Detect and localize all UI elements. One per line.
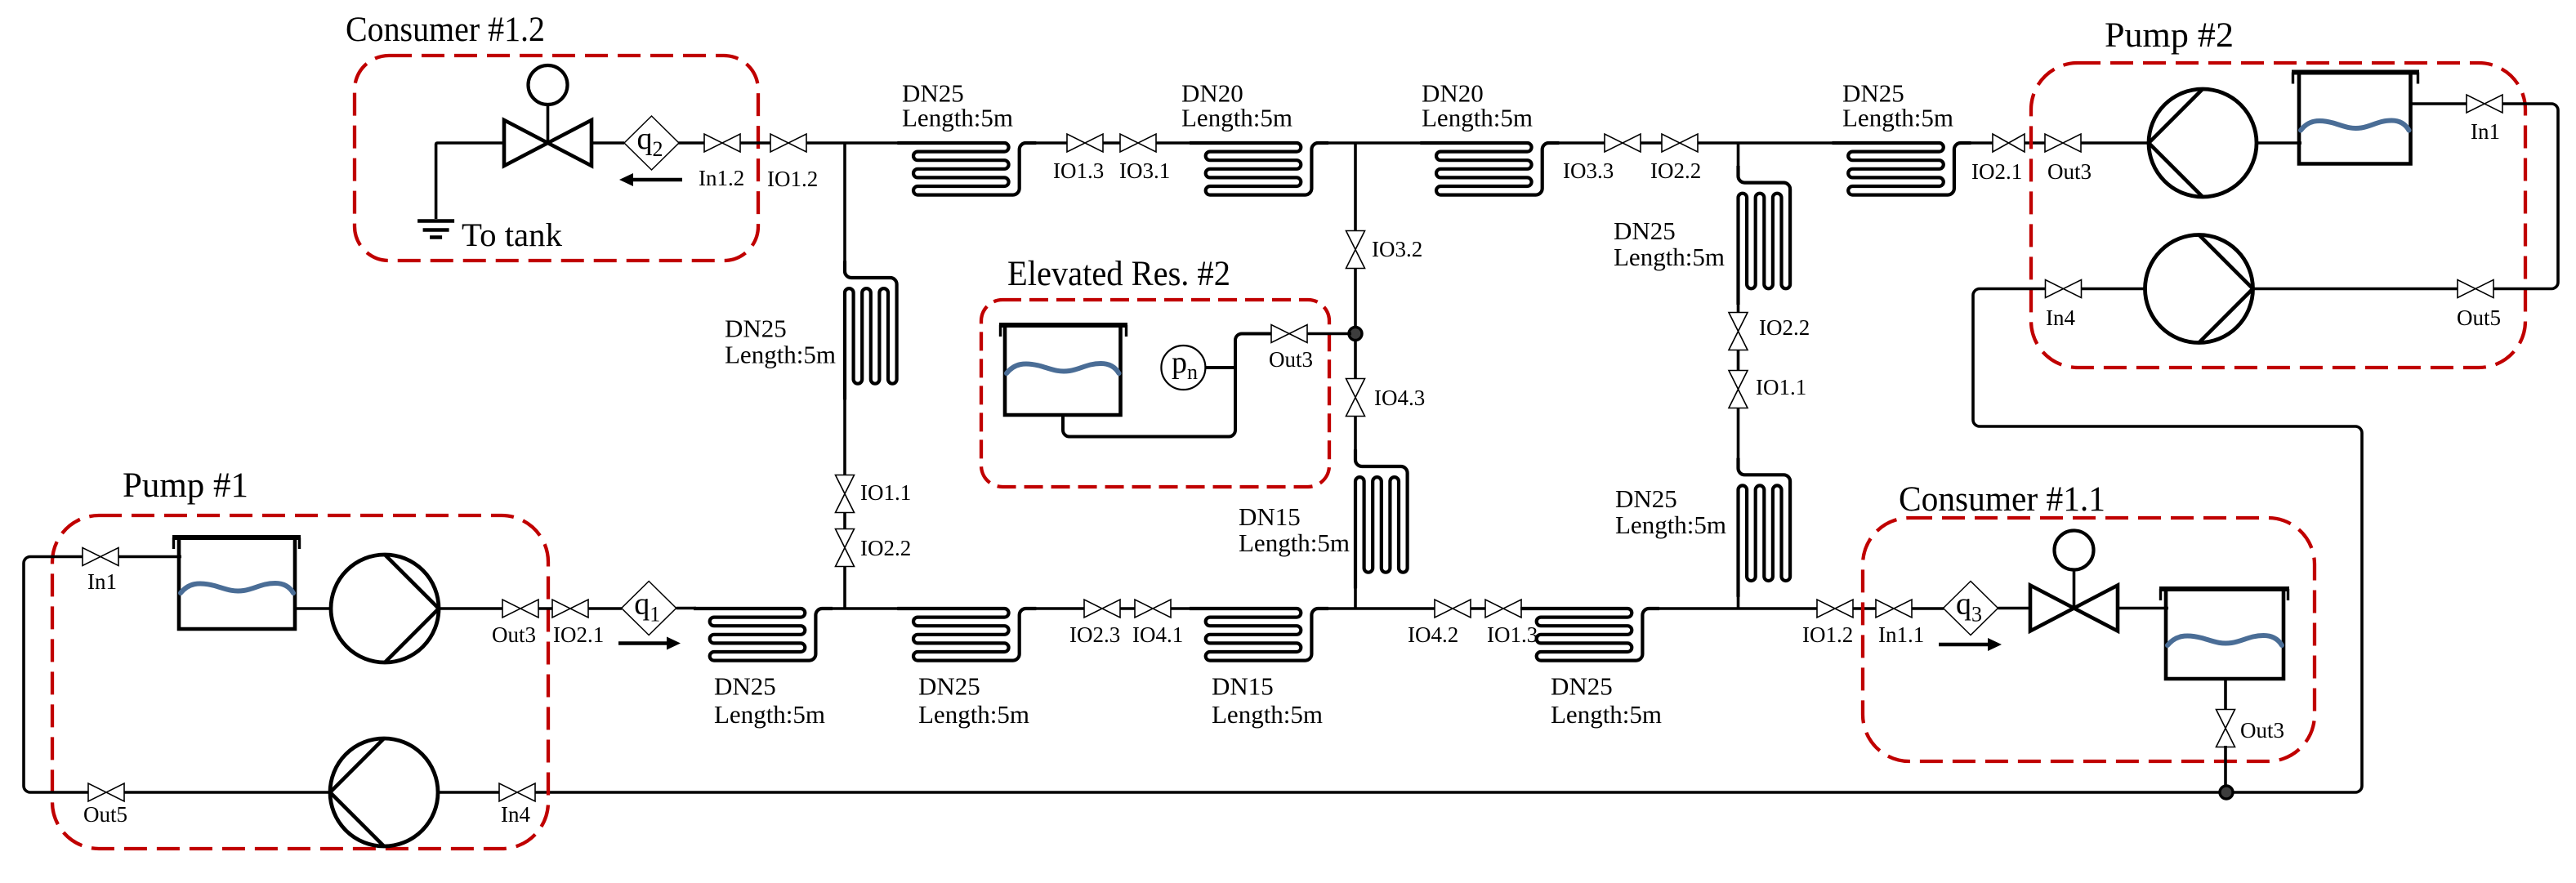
wire Out3 to node (1307, 332, 1351, 336)
svg-text:To tank: To tank (462, 216, 562, 253)
tank drain down (2224, 679, 2227, 711)
valve IO2.2 (left branch) (836, 529, 855, 567)
valve In4 (pump2) (2046, 280, 2082, 298)
svg-text:IO3.1: IO3.1 (1119, 158, 1170, 183)
flow meter q3 (1944, 582, 1998, 635)
svg-text:Length:5m: Length:5m (1212, 700, 1323, 729)
svg-text:In1.1: In1.1 (1878, 622, 1924, 647)
wire coil to valve IO4.2 via node (1327, 607, 1435, 610)
wire q2 to valve In1.2 (679, 141, 705, 145)
valve IO1.3 (top) (1067, 134, 1103, 152)
branch wire top to coil V1 (843, 143, 846, 265)
branch wire IO2.2 to IO1.1 (1737, 350, 1740, 372)
valve IO3.2 (1346, 231, 1365, 269)
svg-text:IO1.1: IO1.1 (860, 480, 911, 505)
wire Out3 to IO2.1 (538, 607, 552, 610)
wire valve to tank (2118, 607, 2168, 610)
wire In1 left down to Out5 (24, 557, 88, 793)
svg-text:IO1.1: IO1.1 (1756, 375, 1806, 399)
branch wire IO3.2 to node (1354, 268, 1357, 328)
pipe coil DN20 top-2 (1190, 143, 1328, 195)
wire valve V1.2 to q2 (592, 141, 624, 145)
wire IO2.1 to Out3 (2025, 141, 2045, 145)
valve IO4.2 (1435, 600, 1471, 618)
reservoir tank pump #1 (172, 537, 301, 629)
ground (to tank) (417, 221, 454, 238)
svg-text:DN25: DN25 (1615, 484, 1677, 513)
tank drain to Out3 valve (1063, 334, 1273, 437)
svg-text:Out3: Out3 (2047, 159, 2092, 184)
svg-text:IO1.2: IO1.2 (1802, 622, 1853, 647)
svg-text:DN15: DN15 (1239, 502, 1301, 531)
branch wire top to coil V2 (1737, 143, 1740, 167)
wire IO4.1 to coil DN15 (1171, 607, 1193, 610)
valve IO2.1 (pump2) (1993, 134, 2025, 152)
wire tank to pump (295, 607, 333, 610)
svg-text:Out3: Out3 (1269, 347, 1313, 372)
svg-text:In1.2: In1.2 (699, 166, 744, 190)
branch wire IO4.3 to coil DN15 (1354, 416, 1357, 456)
valve In1.2 (704, 134, 740, 152)
wire IO1.2 to In1.1 (1853, 607, 1876, 610)
svg-text:DN15: DN15 (1212, 672, 1274, 701)
junction node Elevated Res (1349, 328, 1362, 341)
branch wire coil to bottom line (1354, 584, 1357, 609)
valve In1.1 (1876, 600, 1912, 618)
wire In1.2 to IO1.2 (740, 141, 770, 145)
wire IO3.1 to coil DN20 (1156, 141, 1213, 145)
wire IO2.2 to coil DN25 via node (1698, 141, 1855, 145)
wire pump to In4 (2082, 288, 2145, 291)
svg-text:IO3.3: IO3.3 (1563, 158, 1614, 183)
valve Out3 (elevated) (1271, 325, 1307, 343)
wire Out5 to pump (124, 791, 332, 794)
valve IO3.3 (1605, 134, 1641, 152)
wire IO2.3 to IO4.1 (1120, 607, 1135, 610)
valve IO2.3 (1084, 600, 1120, 618)
dashed boundary Pump #2 (2031, 63, 2525, 368)
valve IO2.2 (top) (1662, 134, 1698, 152)
pipe coil DN25 bottom-4 (1520, 609, 1659, 661)
svg-text:DN25: DN25 (725, 314, 787, 343)
wire IO1.3 to coil (1521, 607, 1544, 610)
wire IO1.3 to IO3.1 (1103, 141, 1120, 145)
svg-text:IO2.2: IO2.2 (1650, 158, 1701, 183)
valve Out3 (consumer 1.1) (2217, 710, 2235, 747)
svg-text:In1: In1 (87, 569, 117, 594)
wire pn to drain pipe (1205, 366, 1235, 369)
pipe coil DN25 vert-right-lower (1739, 458, 1791, 597)
dashed boundary Pump #1 (52, 515, 548, 849)
return pipe In4(P2) to In4(P1) (535, 289, 2362, 793)
wire coil to valve IO3.3 (1557, 141, 1605, 145)
svg-text:Out3: Out3 (2240, 718, 2284, 743)
svg-text:IO1.2: IO1.2 (767, 167, 818, 191)
pipe coil DN25 bottom-2 (897, 609, 1036, 661)
valve In4 (pump1) (499, 783, 535, 801)
wire coil to valve IO2.1 (1969, 141, 1993, 145)
wire In1 down to Out5 line (2493, 104, 2558, 289)
wire pump to valve In4 (438, 791, 499, 794)
wire pump to tank (2257, 141, 2301, 145)
branch wire coil to bottom line (1737, 592, 1740, 609)
wire IO4.2 to IO1.3 (1471, 607, 1485, 610)
valve IO1.1 (left branch) (836, 475, 855, 513)
svg-text:Length:5m: Length:5m (714, 700, 825, 729)
pipe coil DN20 top-3 (1420, 143, 1559, 195)
pump P1b (bottom) (330, 738, 438, 846)
flow meter q1 (622, 582, 676, 635)
svg-text:Out3: Out3 (492, 622, 536, 647)
wire coil to valve IO1.2 via node (1658, 607, 1817, 610)
svg-text:IO2.1: IO2.1 (553, 622, 604, 647)
pipe coil DN15 vert-middle (1355, 449, 1408, 588)
svg-text:Pump #1: Pump #1 (123, 466, 248, 505)
svg-text:Length:5m: Length:5m (918, 700, 1029, 729)
branch wire coil to IO1.1 (843, 395, 846, 476)
valve IO1.3 (bottom) (1485, 600, 1521, 618)
svg-text:Out5: Out5 (83, 802, 127, 827)
junction node bottom (2220, 786, 2233, 799)
wire Out3 to pump (2081, 141, 2151, 145)
pipe coil DN25 bottom-1 (694, 609, 833, 661)
pump P2a (top) (2149, 89, 2257, 197)
svg-text:IO2.2: IO2.2 (1759, 315, 1810, 340)
control valve V1.1 (2030, 531, 2118, 631)
svg-text:IO1.3: IO1.3 (1487, 622, 1538, 647)
valve IO4.1 (1135, 600, 1171, 618)
drain to junction (2224, 746, 2227, 789)
wire q1 to coil (676, 607, 696, 610)
svg-text:Length:5m: Length:5m (1614, 243, 1725, 271)
svg-text:IO4.1: IO4.1 (1132, 622, 1183, 647)
valve IO1.2 (top) (770, 134, 806, 152)
wire coil to valve IO2.3 (1034, 607, 1084, 610)
pipe coil DN25 top-1 (897, 143, 1036, 195)
valve IO4.3 (1346, 379, 1365, 417)
valve IO1.1 (right branch) (1729, 371, 1748, 408)
branch wire node to IO4.3 (1354, 339, 1357, 380)
branch wire IO1.1 to IO2.2 (843, 512, 846, 530)
wire coil to coil via node (831, 607, 899, 610)
svg-text:IO2.1: IO2.1 (1971, 159, 2022, 184)
wire Out5 to pump (2253, 288, 2458, 291)
svg-text:Consumer #1.1: Consumer #1.1 (1899, 480, 2105, 519)
branch wire top to IO3.2 (1354, 143, 1357, 232)
wire IO3.3 to IO2.2 (1641, 141, 1662, 145)
wire IO2.1 to q1 (588, 607, 622, 610)
svg-text:In4: In4 (2046, 305, 2075, 330)
svg-text:Length:5m: Length:5m (725, 340, 836, 368)
valve Out5 (pump2) (2458, 280, 2493, 298)
dashed boundary Consumer #1.2 (355, 56, 758, 261)
svg-text:Length:5m: Length:5m (1181, 103, 1292, 132)
branch wire coil to IO2.2 (1737, 296, 1740, 314)
pressure sensor pn (1161, 346, 1205, 390)
wire IO1.2 to pipe coil DN25 (806, 141, 899, 145)
wire coil DN20 to coil DN20 via node (1327, 141, 1443, 145)
wire In1.1 to q3 (1912, 607, 1944, 610)
branch wire IO2.2 to bottom line (843, 566, 846, 609)
valve IO1.2 (bottom) (1817, 600, 1853, 618)
dashed boundary Elevated Res. #2 (981, 300, 1329, 487)
branch wire IO1.1 to coil V3 (1737, 408, 1740, 463)
pipe coil DN15 bottom-3 (1190, 609, 1328, 661)
pipe coil DN25 top-4 (1833, 143, 1971, 195)
svg-text:Elevated Res. #2: Elevated Res. #2 (1007, 255, 1230, 293)
svg-text:Length:5m: Length:5m (1615, 511, 1726, 539)
valve Out3 (pump2) (2045, 134, 2081, 152)
svg-text:Length:5m: Length:5m (1842, 103, 1953, 132)
svg-text:IO2.3: IO2.3 (1069, 622, 1120, 647)
flow direction arrow (right) q3 (1939, 638, 2002, 651)
wire pump to valve Out3 (439, 607, 502, 610)
svg-text:Length:5m: Length:5m (1239, 528, 1350, 557)
valve Out5 (pump1) (88, 783, 124, 801)
pipe coil DN25 vert-left (845, 261, 897, 399)
svg-text:Consumer #1.2: Consumer #1.2 (346, 11, 545, 49)
svg-text:DN25: DN25 (1551, 672, 1613, 701)
svg-text:DN25: DN25 (714, 672, 776, 701)
pipe coil DN25 vert-right-upper (1739, 166, 1791, 305)
valve IO2.1 (pump1) (552, 600, 588, 618)
svg-text:Length:5m: Length:5m (1551, 700, 1662, 729)
pump P1a (top) (331, 555, 439, 662)
reservoir tank consumer #1.1 (2159, 589, 2289, 679)
svg-text:In1: In1 (2471, 119, 2500, 144)
wire In1 to tank (118, 555, 181, 559)
svg-text:Out5: Out5 (2457, 305, 2501, 330)
svg-text:IO4.2: IO4.2 (1408, 622, 1458, 647)
svg-text:Length:5m: Length:5m (1422, 103, 1533, 132)
reservoir tank elevated (999, 325, 1127, 415)
flow meter q2 (624, 116, 679, 170)
svg-text:IO4.3: IO4.3 (1374, 386, 1425, 410)
svg-text:IO2.2: IO2.2 (860, 536, 911, 560)
wire coil to valve IO1.3 (1034, 141, 1068, 145)
dashed boundary Consumer #1.1 (1863, 518, 2315, 761)
valve In1 (pump1) (83, 548, 118, 566)
valve In1 (pump2) (2467, 95, 2502, 113)
wire q3 to control valve (1998, 607, 2031, 610)
svg-text:IO1.3: IO1.3 (1053, 158, 1104, 183)
flow direction arrow (right) q1 (618, 637, 681, 650)
wire tank to valve In1 (2411, 102, 2467, 105)
svg-text:IO3.2: IO3.2 (1372, 237, 1422, 261)
svg-text:DN25: DN25 (918, 672, 980, 701)
control valve V1.2 (504, 65, 592, 166)
reservoir tank pump #2 (2292, 73, 2419, 164)
valve IO3.1 (1120, 134, 1156, 152)
svg-text:DN25: DN25 (1614, 216, 1676, 245)
svg-text:In4: In4 (501, 802, 530, 827)
flow direction arrow (left) (619, 173, 682, 186)
valve IO2.2 (right branch) (1729, 313, 1748, 350)
valve Out3 (pump1) (502, 600, 538, 618)
pump P2b (bottom) (2145, 235, 2253, 343)
svg-text:Pump #2: Pump #2 (2105, 16, 2234, 55)
svg-text:Length:5m: Length:5m (902, 103, 1013, 132)
wire control valve V1.2 to ground (436, 143, 504, 219)
